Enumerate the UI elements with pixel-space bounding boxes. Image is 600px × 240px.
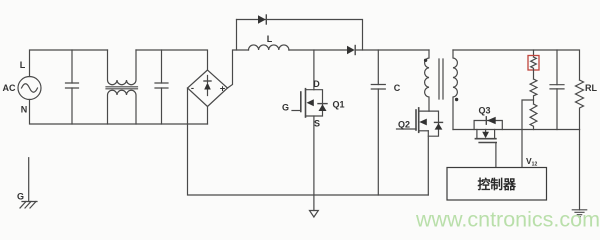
transistor Q1 <box>292 50 327 195</box>
wire bridge bottom to rail <box>207 107 209 125</box>
svg-text:RL: RL <box>585 83 597 93</box>
transformer T1 primary <box>424 50 429 111</box>
resistor R3 <box>530 104 537 130</box>
svg-text:G: G <box>282 103 289 113</box>
diode D1 bypass <box>237 15 363 50</box>
transformer T1 core <box>439 59 443 99</box>
svg-text:www.cntronics.com: www.cntronics.com <box>415 208 600 232</box>
svg-text:V12: V12 <box>526 156 537 168</box>
transistor Q3 <box>474 117 502 168</box>
svg-text:N: N <box>21 105 28 115</box>
inductor L1 <box>249 45 289 50</box>
svg-text:S: S <box>314 119 320 129</box>
wire rail to bridge top <box>136 50 208 70</box>
AC source V1 <box>18 77 41 100</box>
svg-text:Q1: Q1 <box>332 100 344 110</box>
resistor R2 <box>530 79 537 104</box>
capacitor CX1 <box>66 50 79 124</box>
wire output rail to earth <box>579 130 581 210</box>
wire bridge plus output to rail <box>228 50 249 88</box>
diode D2 <box>347 46 355 55</box>
svg-text:G: G <box>17 192 24 202</box>
wire secondary output line <box>453 129 580 131</box>
svg-text:C: C <box>394 83 401 93</box>
ground arrow at Q1 source <box>310 195 319 217</box>
svg-text:Q3: Q3 <box>478 106 490 116</box>
svg-text:+: + <box>220 84 226 95</box>
wire Vcc tap to controller <box>522 100 534 168</box>
capacitor C <box>371 50 385 195</box>
svg-text:L: L <box>267 34 273 44</box>
svg-text:AC: AC <box>3 83 16 93</box>
svg-text:D: D <box>313 79 320 89</box>
bridge rectifier BR1 <box>188 70 228 107</box>
capacitor Co output <box>550 50 564 130</box>
wire rail inductor to diode D2 <box>289 49 347 51</box>
wire bypass branch left leg <box>236 20 238 51</box>
wire secondary top rail <box>453 50 580 80</box>
resistor RL <box>576 80 584 130</box>
wire rail diode to transformer <box>355 49 429 51</box>
wire AC top to rail <box>30 50 108 77</box>
svg-text:-: - <box>191 83 194 94</box>
capacitor CX2 <box>155 50 168 124</box>
earth ground right <box>572 210 586 217</box>
svg-text:L: L <box>20 60 26 70</box>
transformer T1 secondary <box>453 50 458 130</box>
wire ground rail bottom <box>188 88 429 195</box>
wire AC bottom rail <box>30 100 208 125</box>
transistor Q2 <box>397 108 443 195</box>
svg-text:Q2: Q2 <box>398 120 410 130</box>
controller U1 <box>447 168 547 201</box>
common-mode choke LF1 <box>106 50 138 124</box>
resistor R1 in red highlight box <box>528 50 539 79</box>
svg-text:控制器: 控制器 <box>478 177 517 192</box>
chassis ground G left <box>20 158 37 208</box>
